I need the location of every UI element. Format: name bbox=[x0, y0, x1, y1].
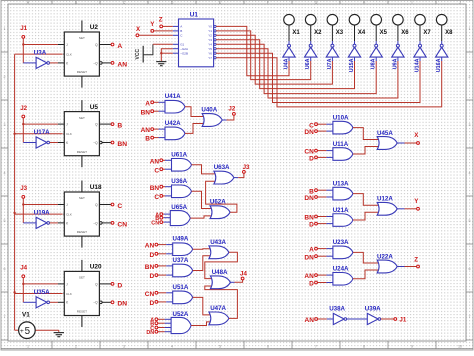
svg-text:U14A: U14A bbox=[414, 58, 420, 72]
label C bbox=[309, 122, 314, 129]
and U10A bbox=[333, 121, 353, 134]
junction J4 bbox=[22, 283, 24, 285]
terminal B bbox=[315, 189, 318, 192]
svg-text:CLK: CLK bbox=[66, 213, 72, 217]
svg-text:DN: DN bbox=[304, 254, 314, 261]
wire U36A to U62A bbox=[192, 191, 212, 208]
wire VCC to G1 bbox=[153, 43, 173, 45]
wire U48A to J4 bbox=[230, 280, 242, 282]
svg-text:J1: J1 bbox=[399, 316, 406, 323]
terminal C bbox=[155, 326, 158, 329]
wire U51A to U47A bbox=[193, 297, 211, 315]
wire Y6 to X7 bbox=[216, 53, 420, 102]
svg-text:DN: DN bbox=[117, 301, 127, 308]
terminal AN bbox=[111, 62, 114, 65]
svg-text:J3: J3 bbox=[243, 164, 250, 171]
terminal A bbox=[151, 101, 154, 104]
svg-text:5: 5 bbox=[4, 219, 6, 223]
label U43A bbox=[210, 239, 226, 246]
label U7A bbox=[327, 58, 333, 69]
svg-text:BN: BN bbox=[150, 185, 160, 192]
label DN bbox=[117, 301, 127, 308]
wire Y4 to X5 bbox=[216, 44, 376, 93]
wire U40A to J2 bbox=[222, 115, 234, 120]
svg-text:C: C bbox=[154, 194, 159, 201]
wire Q to A bbox=[99, 44, 111, 46]
svg-text:DN: DN bbox=[304, 195, 314, 202]
svg-text:J2: J2 bbox=[20, 105, 27, 112]
terminal J1 bbox=[22, 36, 25, 39]
svg-text:U17A: U17A bbox=[34, 129, 50, 136]
label BN bbox=[304, 215, 314, 222]
wire Y7 to X8 bbox=[216, 57, 442, 107]
label J3 out bbox=[243, 164, 250, 171]
wire BN input bbox=[317, 216, 334, 218]
terminal AN bbox=[315, 274, 318, 277]
label AN bbox=[117, 61, 127, 68]
svg-text:BN: BN bbox=[145, 264, 155, 271]
label U48A bbox=[212, 269, 228, 276]
junction clock U20 bbox=[13, 291, 15, 293]
svg-text:SET: SET bbox=[79, 36, 85, 40]
svg-text:U12A: U12A bbox=[377, 196, 393, 203]
svg-text:U24A: U24A bbox=[333, 266, 349, 273]
terminal J2 out bbox=[233, 113, 236, 116]
inverter U17A bbox=[36, 137, 49, 148]
svg-text:SET: SET bbox=[79, 276, 85, 280]
label U24A bbox=[333, 266, 349, 273]
power VCC bbox=[135, 44, 153, 62]
wire U42A to U40A bbox=[185, 124, 204, 134]
svg-text:U41A: U41A bbox=[165, 93, 181, 100]
wire U23A to U22A bbox=[353, 252, 379, 263]
terminal AN bbox=[151, 128, 154, 131]
svg-text:U19A: U19A bbox=[34, 210, 50, 217]
wire U45A to X bbox=[397, 142, 416, 144]
label AN bbox=[304, 273, 314, 280]
svg-text:RESET: RESET bbox=[77, 70, 87, 74]
svg-text:6: 6 bbox=[469, 267, 471, 271]
label J2 out bbox=[228, 105, 235, 112]
svg-text:3: 3 bbox=[469, 123, 471, 127]
wire U43A to U48A bbox=[205, 252, 238, 278]
svg-text:U65A: U65A bbox=[171, 204, 187, 211]
wire Y2 to X3 bbox=[216, 35, 332, 84]
wire ~Q to DN bbox=[102, 301, 111, 303]
svg-text:U1: U1 bbox=[190, 12, 199, 19]
terminal D bbox=[111, 283, 114, 286]
and U36A bbox=[172, 185, 192, 198]
svg-text:U48A: U48A bbox=[212, 269, 228, 276]
label X5 bbox=[380, 30, 388, 36]
label B bbox=[117, 123, 122, 130]
svg-text:BN: BN bbox=[117, 141, 127, 148]
wire J2 to J input bbox=[23, 118, 64, 124]
svg-text:CLK: CLK bbox=[66, 132, 72, 136]
terminal C bbox=[111, 203, 114, 206]
label U4A bbox=[283, 58, 289, 69]
svg-text:U20: U20 bbox=[90, 264, 102, 271]
svg-text:Y1: Y1 bbox=[208, 29, 212, 33]
flip-flop U5 bbox=[64, 100, 102, 167]
wire U10A to U45A bbox=[353, 128, 379, 140]
or U43A bbox=[209, 246, 229, 259]
label D bbox=[309, 156, 314, 163]
svg-text:AN: AN bbox=[145, 243, 155, 250]
svg-text:Y2: Y2 bbox=[208, 34, 212, 38]
label D bbox=[117, 282, 122, 289]
or U63A bbox=[214, 171, 234, 184]
terminal AN bbox=[155, 243, 158, 246]
label C bbox=[150, 326, 154, 332]
wire clock bbox=[15, 53, 67, 56]
label U37A bbox=[173, 257, 189, 264]
terminal AN bbox=[315, 318, 318, 321]
wire U49A to U43A bbox=[193, 248, 211, 250]
flip-flop U18 bbox=[64, 181, 102, 248]
svg-text:1: 1 bbox=[469, 27, 471, 31]
svg-text:U15A: U15A bbox=[349, 58, 355, 72]
and U23A bbox=[333, 246, 353, 259]
terminal AN bbox=[160, 159, 163, 162]
svg-text:U51A: U51A bbox=[173, 284, 189, 291]
wire X to U1 bbox=[139, 34, 173, 36]
wire clock bbox=[15, 132, 67, 135]
label U51A bbox=[173, 284, 189, 291]
svg-text:AN: AN bbox=[150, 158, 160, 165]
wire D input bbox=[317, 223, 334, 225]
label DN bbox=[146, 330, 154, 336]
svg-text:I: I bbox=[412, 1, 413, 5]
svg-text:X3: X3 bbox=[336, 30, 344, 36]
inverter U3A bbox=[36, 57, 49, 68]
label U10A bbox=[333, 114, 349, 121]
wire U22A to Z bbox=[397, 266, 416, 268]
svg-text:~Q: ~Q bbox=[93, 221, 98, 225]
and U52A bbox=[171, 317, 191, 333]
and U61A bbox=[172, 159, 192, 172]
svg-text:RESET: RESET bbox=[77, 230, 87, 234]
wire clock bus vertical bbox=[14, 54, 16, 330]
wire Z to U1 bbox=[163, 25, 173, 27]
svg-text:BN: BN bbox=[304, 215, 314, 222]
svg-text:U38A: U38A bbox=[329, 306, 345, 313]
svg-text:6: 6 bbox=[267, 344, 269, 348]
junction J3 bbox=[22, 203, 24, 205]
svg-text:DN: DN bbox=[304, 129, 314, 136]
svg-text:U7A: U7A bbox=[327, 58, 333, 69]
wire G2A G2B to ground bbox=[161, 49, 173, 62]
wire DN input bbox=[317, 196, 334, 198]
label U3A bbox=[34, 50, 47, 57]
wire U37A to U43A bbox=[193, 256, 211, 271]
svg-text:AN: AN bbox=[117, 61, 127, 68]
terminal BN bbox=[315, 215, 318, 218]
label U47A bbox=[210, 305, 226, 312]
junction G2 bbox=[160, 52, 162, 54]
svg-text:~G2B: ~G2B bbox=[180, 52, 188, 56]
label U17A bbox=[34, 129, 50, 136]
svg-text:8: 8 bbox=[363, 344, 365, 348]
or U45A bbox=[377, 137, 397, 150]
svg-text:2: 2 bbox=[4, 75, 6, 79]
wire Y5 to X6 bbox=[216, 49, 398, 98]
label B bbox=[145, 136, 150, 143]
wire U21A to U12A bbox=[353, 212, 379, 220]
svg-text:G: G bbox=[315, 1, 318, 5]
svg-text:AN: AN bbox=[141, 127, 151, 134]
wire A input bbox=[163, 213, 172, 215]
wire AN input bbox=[318, 318, 335, 320]
label AN bbox=[141, 127, 151, 134]
svg-text:6: 6 bbox=[4, 267, 6, 271]
label Y out bbox=[414, 198, 419, 205]
label A bbox=[117, 43, 122, 50]
label U36A bbox=[171, 178, 187, 185]
label X1 bbox=[292, 30, 300, 36]
svg-text:U36A: U36A bbox=[171, 178, 187, 185]
or U47A bbox=[209, 312, 229, 325]
wire B input bbox=[154, 137, 167, 139]
svg-text:Z: Z bbox=[414, 256, 418, 263]
label A bbox=[145, 100, 150, 107]
svg-text:4: 4 bbox=[4, 171, 6, 175]
wire J4 to J input bbox=[23, 278, 64, 284]
wire A input bbox=[158, 318, 173, 320]
svg-text:A: A bbox=[145, 100, 150, 107]
svg-text:SET: SET bbox=[79, 116, 85, 120]
svg-text:U9A: U9A bbox=[392, 58, 398, 69]
or U22A bbox=[377, 260, 397, 273]
terminal C bbox=[160, 168, 163, 171]
svg-text:U43A: U43A bbox=[210, 239, 226, 246]
terminal BN bbox=[160, 185, 163, 188]
label U12A bbox=[377, 196, 393, 203]
wire D input bbox=[158, 301, 174, 303]
terminal D bbox=[315, 281, 318, 284]
label X3 bbox=[336, 30, 344, 36]
svg-text:B: B bbox=[145, 136, 150, 143]
label Y bbox=[150, 21, 155, 28]
terminal X bbox=[417, 142, 420, 145]
terminal B bbox=[155, 322, 158, 325]
svg-text:U8A: U8A bbox=[371, 58, 377, 69]
terminal DN bbox=[111, 301, 114, 304]
svg-text:J3: J3 bbox=[20, 185, 27, 192]
label CN bbox=[145, 291, 155, 298]
label J4 bbox=[20, 265, 27, 272]
label U65A bbox=[171, 204, 187, 211]
lamp X3 bbox=[327, 14, 338, 41]
svg-text:A: A bbox=[117, 43, 122, 50]
svg-text:J1: J1 bbox=[20, 25, 27, 32]
svg-text:~Q: ~Q bbox=[93, 61, 98, 65]
terminal DN bbox=[315, 130, 318, 133]
and U21A bbox=[333, 214, 353, 227]
label U45A bbox=[377, 130, 393, 137]
svg-text:D: D bbox=[309, 156, 314, 163]
label BN bbox=[150, 185, 160, 192]
svg-text:CLK: CLK bbox=[66, 292, 72, 296]
label U21A bbox=[333, 207, 349, 214]
svg-text:2: 2 bbox=[75, 344, 77, 348]
svg-text:J4: J4 bbox=[240, 271, 247, 278]
wire Y0 to X1 bbox=[216, 26, 289, 75]
and U11A bbox=[333, 148, 353, 161]
wire D input bbox=[158, 274, 174, 276]
terminal Z bbox=[160, 25, 163, 28]
lamp X1 bbox=[284, 14, 295, 41]
svg-text:U62A: U62A bbox=[210, 199, 226, 206]
svg-text:X4: X4 bbox=[358, 30, 366, 36]
svg-text:4: 4 bbox=[469, 171, 471, 175]
svg-text:X5: X5 bbox=[380, 30, 388, 36]
svg-text:C: C bbox=[154, 167, 159, 174]
svg-text:A: A bbox=[180, 25, 182, 29]
svg-text:~Q: ~Q bbox=[93, 301, 98, 305]
label J2 bbox=[20, 105, 27, 112]
buffer U14A bbox=[414, 41, 426, 57]
wire C input bbox=[163, 168, 173, 170]
svg-text:5: 5 bbox=[25, 326, 31, 337]
svg-text:Y5: Y5 bbox=[208, 47, 212, 51]
svg-text:RESET: RESET bbox=[77, 150, 87, 154]
wire AN input bbox=[158, 244, 174, 246]
wire ~Q to CN bbox=[102, 222, 111, 224]
wire BN input bbox=[163, 186, 173, 188]
wire to inverter input bbox=[23, 124, 36, 142]
wire inverter out to K bbox=[50, 62, 65, 64]
svg-text:U40A: U40A bbox=[201, 106, 217, 113]
label X bbox=[136, 26, 141, 33]
svg-text:CN: CN bbox=[151, 221, 159, 227]
label J4 out bbox=[240, 271, 247, 278]
label U38A bbox=[329, 306, 345, 313]
wire inverter out to K bbox=[50, 142, 65, 144]
label C bbox=[154, 167, 159, 174]
or U12A bbox=[377, 202, 397, 215]
svg-text:H: H bbox=[363, 1, 366, 5]
wire Y to U1 bbox=[154, 30, 173, 32]
wire ~Q to BN bbox=[102, 142, 111, 144]
svg-text:Y7: Y7 bbox=[208, 56, 212, 60]
svg-text:U11A: U11A bbox=[333, 141, 349, 148]
terminal D bbox=[315, 156, 318, 159]
wire U47A to U48A bbox=[205, 286, 238, 318]
terminal J1 out bbox=[394, 318, 397, 321]
svg-text:U18: U18 bbox=[90, 184, 102, 191]
terminal D bbox=[155, 274, 158, 277]
inverter U19A bbox=[36, 217, 49, 228]
lamp X8 bbox=[436, 14, 447, 41]
and U42A bbox=[165, 127, 185, 140]
svg-text:U42A: U42A bbox=[165, 120, 181, 127]
label Z out bbox=[414, 256, 418, 263]
label U20 bbox=[90, 264, 102, 271]
svg-text:BN: BN bbox=[141, 109, 151, 116]
wire clock bbox=[15, 292, 67, 295]
wire U39A to J1 bbox=[381, 318, 394, 320]
label U14A bbox=[414, 58, 420, 72]
label X4 bbox=[358, 30, 366, 36]
svg-text:U2: U2 bbox=[90, 24, 99, 31]
svg-text:A: A bbox=[309, 247, 314, 254]
label U42A bbox=[165, 120, 181, 127]
wire A input bbox=[317, 248, 334, 250]
lamp X2 bbox=[305, 14, 316, 41]
terminal CN bbox=[315, 149, 318, 152]
svg-text:C: C bbox=[123, 1, 126, 5]
terminal J3 bbox=[22, 196, 25, 199]
lamp X4 bbox=[349, 14, 360, 41]
label D bbox=[149, 273, 154, 280]
and U41A bbox=[165, 100, 185, 113]
terminal B bbox=[151, 136, 154, 139]
terminal CN bbox=[155, 291, 158, 294]
wire U38A to U39A bbox=[347, 318, 368, 320]
ground symbol near V1 bbox=[54, 330, 64, 337]
label U6A bbox=[305, 58, 311, 69]
label U1 bbox=[190, 12, 199, 19]
wire U11A to U45A bbox=[353, 147, 379, 155]
svg-text:Y4: Y4 bbox=[208, 43, 212, 47]
wire C input bbox=[163, 195, 173, 197]
svg-text:U10A: U10A bbox=[333, 114, 349, 121]
svg-text:Y0: Y0 bbox=[208, 25, 212, 29]
label A bbox=[309, 247, 314, 254]
label BN bbox=[117, 141, 127, 148]
label CN bbox=[151, 221, 159, 227]
svg-text:B: B bbox=[180, 29, 182, 33]
svg-text:C: C bbox=[117, 203, 122, 210]
svg-text:X6: X6 bbox=[401, 30, 409, 36]
svg-text:X8: X8 bbox=[445, 30, 453, 36]
svg-text:~G2A: ~G2A bbox=[180, 47, 188, 51]
svg-text:5: 5 bbox=[219, 344, 221, 348]
svg-text:10: 10 bbox=[458, 344, 462, 348]
svg-text:U37A: U37A bbox=[173, 257, 189, 264]
terminal D bbox=[155, 301, 158, 304]
and U13A bbox=[333, 187, 353, 200]
label D bbox=[149, 252, 154, 259]
buffer U15A bbox=[348, 41, 360, 57]
label U5 bbox=[90, 104, 99, 111]
label U62A bbox=[210, 199, 226, 206]
svg-text:7: 7 bbox=[469, 315, 471, 319]
label AN bbox=[150, 158, 160, 165]
svg-text:X7: X7 bbox=[423, 30, 431, 36]
svg-text:RESET: RESET bbox=[77, 310, 87, 314]
and U37A bbox=[173, 264, 193, 277]
terminal A bbox=[155, 318, 158, 321]
buffer U7A bbox=[326, 41, 338, 57]
buffer U16A bbox=[436, 41, 448, 57]
terminal J2 bbox=[22, 115, 25, 118]
label J3 bbox=[20, 185, 27, 192]
label V1 bbox=[22, 311, 30, 318]
svg-text:CLK: CLK bbox=[66, 53, 72, 57]
svg-text:1: 1 bbox=[4, 27, 6, 31]
svg-text:CN: CN bbox=[145, 291, 155, 298]
label D bbox=[149, 300, 154, 307]
wire U63A to J3 bbox=[234, 173, 244, 177]
wire B input bbox=[158, 322, 173, 324]
svg-text:U63A: U63A bbox=[214, 164, 230, 171]
label J1 out bbox=[399, 316, 406, 323]
wire AN input bbox=[154, 128, 167, 130]
svg-text:J4: J4 bbox=[20, 265, 27, 272]
terminal J4 bbox=[22, 275, 25, 278]
